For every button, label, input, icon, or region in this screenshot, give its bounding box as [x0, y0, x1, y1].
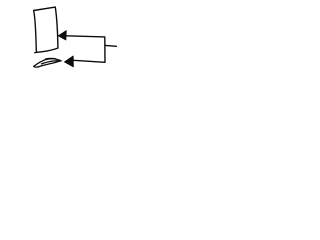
arrow to ellipse (solid head): [64, 56, 73, 67]
document shape (tilted rectangle): [34, 7, 58, 53]
open rectangle block (C-shape) with arrow shafts: [66, 36, 105, 63]
ellipse (flat disk, sketchy double stroke): [34, 58, 61, 67]
connector stub on right: [105, 44, 116, 47]
arrow to document (solid head): [58, 31, 66, 40]
